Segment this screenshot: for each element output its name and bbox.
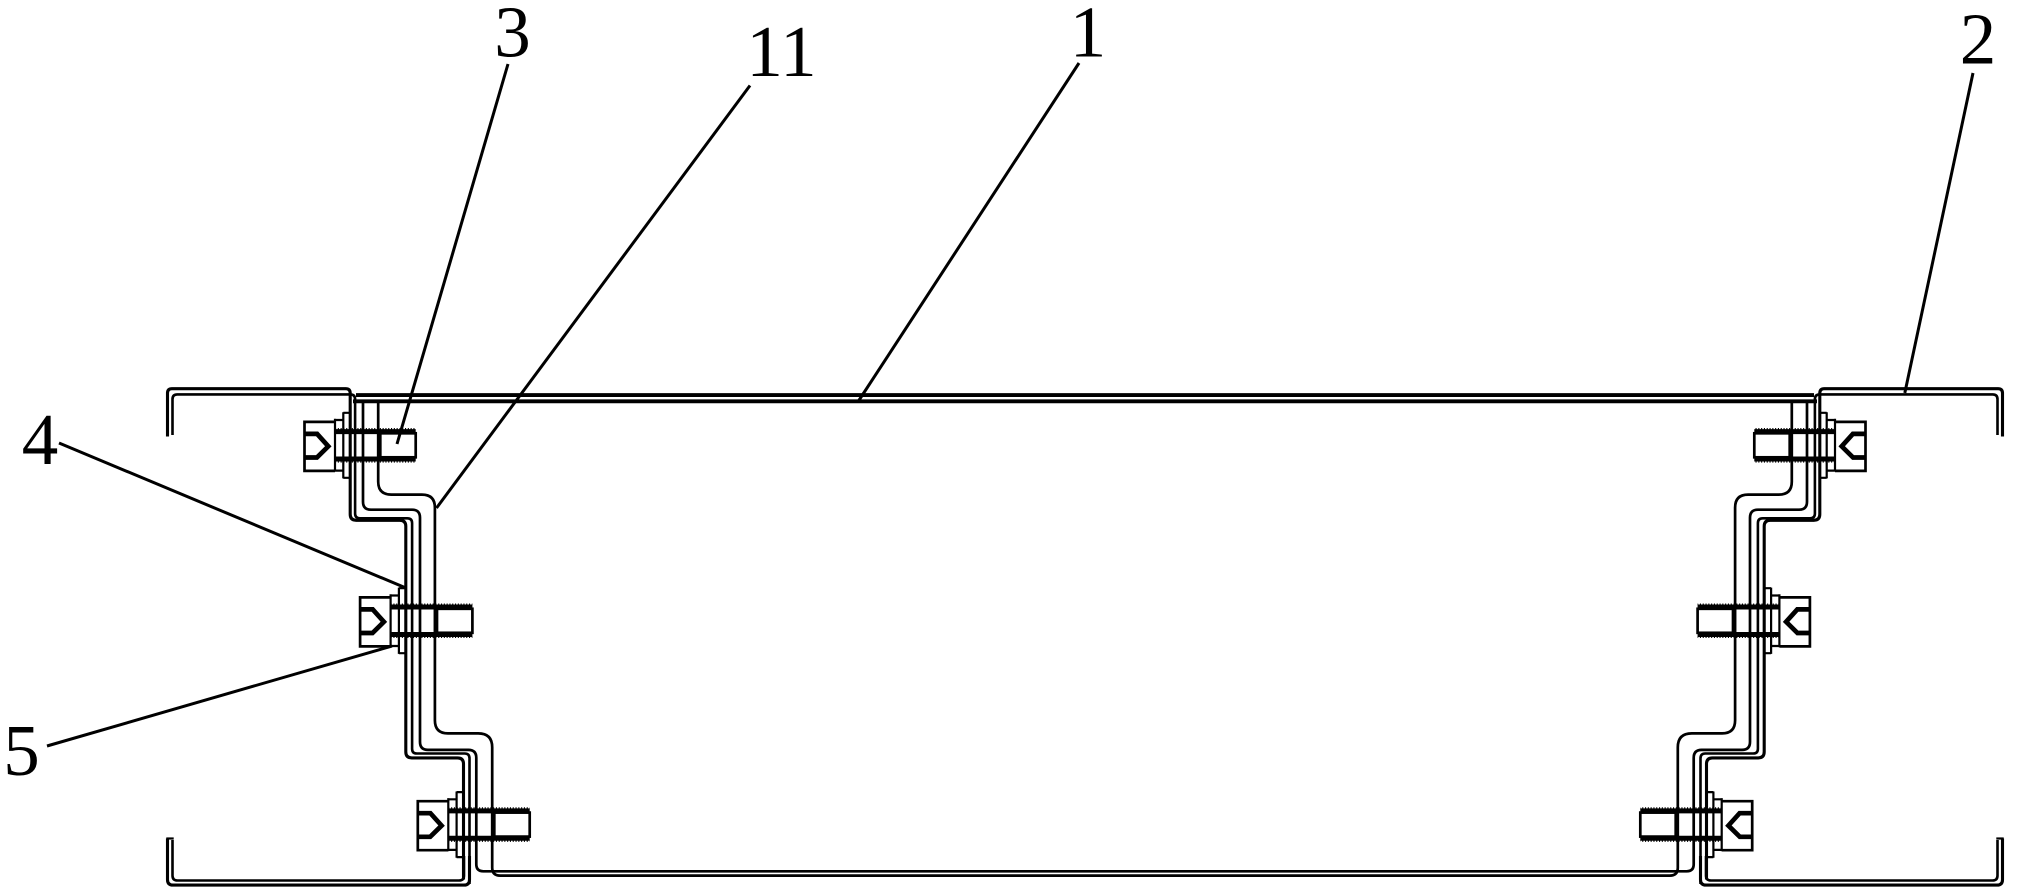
right Z-shaped connecting plate (part 11), inner contour [1085, 402, 1792, 876]
right top bolt assembly (part 3): hex bolt head [1835, 422, 1866, 471]
right middle bolt assembly (parts 4,5): hex bolt head [1779, 597, 1810, 646]
left top bolt assembly (part 3): head chevron mark [305, 434, 329, 458]
right bracket assembly (mirrored) [1085, 389, 2004, 885]
leader line for label 3 [397, 64, 508, 444]
svg-text:5: 5 [3, 710, 40, 791]
svg-text:11: 11 [746, 11, 816, 92]
left middle bolt assembly (parts 4,5): hex bolt head [360, 597, 391, 646]
leader line for label 1 [859, 63, 1080, 401]
right bottom bolt assembly: nut [1640, 813, 1675, 837]
right bottom bolt assembly: threaded rod [1640, 811, 1721, 838]
left top bolt assembly (part 3): nut [380, 433, 415, 457]
left top bolt assembly (part 3): threaded rod [335, 432, 416, 459]
svg-text:2: 2 [1960, 0, 1997, 80]
left Z-shaped connecting plate (part 11), inner contour [378, 402, 1085, 876]
left middle bolt assembly (parts 4,5): nut [437, 609, 472, 633]
right top bolt assembly (part 3): head chevron mark [1842, 434, 1866, 458]
right middle bolt assembly (parts 4,5): head chevron mark [1786, 609, 1810, 633]
leader line for label 2 [1905, 73, 1973, 393]
right bottom C-rail outer contour [1701, 839, 2003, 886]
left bottom bolt assembly: hex bolt head [418, 801, 449, 850]
right middle bolt assembly (parts 4,5): thread serrations [1698, 604, 1780, 637]
svg-text:1: 1 [1070, 0, 1107, 73]
right bottom C-rail inner contour [1706, 840, 1998, 881]
right bottom bolt assembly: head chevron mark [1728, 813, 1752, 837]
svg-text:4: 4 [22, 399, 59, 480]
right bottom bolt assembly: thread serrations [1640, 808, 1721, 841]
right Z-shaped connecting plate (part 11), outer contour [1085, 402, 1807, 872]
right top bolt assembly (part 3): washer and clamp plates [1819, 412, 1835, 478]
left top bolt assembly (part 3): hex bolt head [305, 422, 336, 471]
left bracket assembly [166, 389, 1085, 885]
left bottom bolt assembly: thread serrations [448, 808, 529, 841]
right top bolt assembly (part 3): threaded rod [1754, 432, 1835, 459]
left middle bolt assembly (parts 4,5): head chevron mark [360, 609, 384, 633]
left middle bolt assembly (parts 4,5): threaded rod [391, 607, 473, 635]
right C-shaped hanger rail (part 2), outer contour [1707, 389, 2003, 880]
top mounting panel (part 1), bottom edge [353, 399, 1817, 403]
right middle bolt assembly (parts 4,5): threaded rod [1698, 607, 1780, 635]
right bottom bolt assembly: washer and clamp plates [1706, 792, 1722, 858]
left bottom bolt assembly: threaded rod [448, 811, 529, 838]
right middle bolt assembly (parts 4,5): washer and clamp plates [1764, 588, 1780, 654]
leader line for label 5 [47, 646, 392, 746]
right top bolt assembly (part 3): nut [1754, 433, 1789, 457]
left Z-shaped connecting plate (part 11), outer contour [363, 402, 1085, 872]
right bottom C-rail leg end cap [1996, 837, 2003, 839]
right bottom bolt assembly: hex bolt head [1722, 801, 1753, 850]
left C-shaped hanger rail (part 2), outer contour [168, 389, 464, 880]
left C-shaped hanger rail (part 2), inner contour [173, 394, 470, 884]
left bottom bolt assembly: head chevron mark [418, 813, 442, 837]
left middle bolt assembly (parts 4,5): thread serrations [391, 604, 473, 637]
right top bolt assembly (part 3): thread serrations [1754, 429, 1835, 462]
leader line for label 4 [59, 443, 406, 588]
left top bolt assembly (part 3): washer and clamp plates [335, 412, 351, 478]
left bottom C-rail leg end cap [166, 837, 173, 839]
right middle bolt assembly (parts 4,5): nut [1698, 609, 1733, 633]
left middle bolt assembly (parts 4,5): washer and clamp plates [391, 588, 407, 654]
left bottom bolt assembly: washer and clamp plates [448, 792, 464, 858]
left top bolt assembly (part 3): thread serrations [335, 429, 416, 462]
left bottom C-rail outer contour [168, 839, 470, 886]
left bottom C-rail inner contour [173, 840, 465, 881]
left bottom bolt assembly: nut [494, 813, 529, 837]
leader line for label 11 [437, 86, 751, 509]
svg-text:3: 3 [494, 0, 531, 73]
right C-shaped hanger rail (part 2), inner contour [1701, 394, 1998, 884]
top mounting panel (part 1), top edge [356, 393, 1814, 397]
